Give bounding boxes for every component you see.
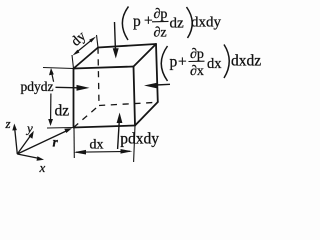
axis x [17, 154, 44, 161]
extension line below front-right edge [134, 126, 135, 163]
top formula fraction bar [152, 20, 169, 22]
pressure arrow right (left onto right face) [144, 83, 170, 89]
svg-text:dy: dy [69, 29, 89, 50]
svg-text:dxdz: dxdz [231, 53, 261, 70]
svg-text:r: r [53, 135, 59, 150]
svg-text:pdxdy: pdxdy [120, 131, 159, 148]
right formula closing paren [224, 45, 229, 79]
pressure arrow bottom (up onto bottom face, pdxdy) [117, 113, 123, 150]
svg-text:y: y [25, 121, 33, 136]
svg-text:dz: dz [170, 16, 185, 32]
cube back-top edge [98, 44, 156, 48]
svg-text:∂p: ∂p [154, 7, 168, 22]
svg-text:x: x [39, 160, 46, 174]
cube front-left edge [73, 69, 75, 128]
extension line left of front-top edge [43, 68, 74, 69]
svg-text:p: p [133, 13, 141, 30]
svg-text:pdydz: pdydz [21, 79, 54, 94]
position vector r [17, 128, 72, 154]
cube front-top edge [74, 67, 134, 69]
svg-text:z: z [5, 116, 11, 131]
svg-text:+: + [178, 54, 187, 71]
dimension dy double arrow [73, 37, 97, 56]
extension line below front-left edge [73, 128, 75, 159]
top formula closing paren [187, 7, 193, 38]
cube top-left depth edge [74, 48, 99, 69]
cube front-bottom edge [74, 126, 136, 128]
svg-text:dx: dx [90, 137, 104, 152]
dx dimension line with outward arrowheads [74, 149, 133, 155]
svg-text:dx: dx [207, 56, 222, 72]
right formula fraction bar [189, 60, 205, 62]
axis z [12, 124, 17, 155]
svg-text:∂z: ∂z [154, 26, 167, 41]
cube top-right depth edge [134, 44, 157, 67]
svg-text:∂x: ∂x [190, 64, 204, 79]
hidden back-left vertical edge (dashed) [98, 48, 99, 106]
axis y [17, 131, 34, 154]
svg-text:+: + [144, 13, 153, 30]
pressure arrow left (pdydz) [56, 85, 90, 91]
svg-text:dxdy: dxdy [191, 15, 222, 31]
svg-text:dz: dz [55, 103, 70, 120]
dz dimension down arrow [48, 94, 53, 127]
extension line above FTL for dy [72, 55, 74, 69]
pressure arrow top (down onto top face) [113, 22, 119, 59]
dz dimension up arrow [49, 68, 54, 82]
svg-text:p: p [170, 54, 178, 71]
hidden bottom-left depth edge (dashed) [74, 106, 100, 128]
right formula opening paren [161, 46, 167, 81]
hidden back-bottom edge (dashed) [99, 102, 158, 105]
top formula opening paren [122, 7, 128, 41]
cube front-right edge [134, 67, 136, 126]
svg-text:∂p: ∂p [190, 47, 204, 62]
cube bottom-right depth edge [135, 102, 158, 126]
extension line above BTL for dy [97, 35, 99, 48]
cube back-right edge [156, 44, 158, 102]
extension line left of front-bottom edge [47, 127, 74, 130]
